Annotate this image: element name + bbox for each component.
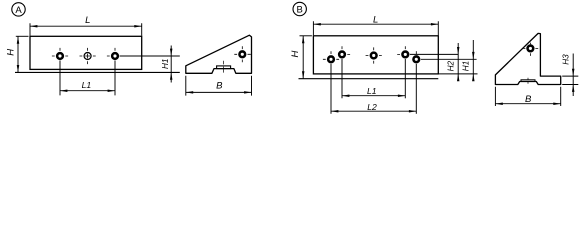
hole B2 inner left [339, 52, 345, 58]
hole B1 outer left [328, 56, 334, 62]
hole A2 centerline ticks [80, 48, 96, 64]
hole B4 extension line down to L1 [404, 59, 406, 98]
dimension H3 (B) line [572, 54, 574, 97]
hole A3 extension line down to L1 [114, 61, 116, 96]
dimension L2 (B) arrowheads [331, 110, 416, 113]
dimension H2 (B) arrowheads [457, 47, 460, 81]
dimension H1 (B) line [472, 40, 474, 80]
hole A1 counterbored [57, 53, 63, 59]
dimension B (B) extension lines [495, 87, 560, 106]
dimension L (B) extension lines [313, 21, 438, 35]
svg-text:H2: H2 [446, 61, 455, 72]
dimension B (A) line [186, 91, 252, 93]
dimension L1 (B) arrowheads [342, 94, 405, 97]
dimension H2 (B) line [457, 43, 459, 80]
dimension H (A) extension line top [16, 35, 29, 37]
side view B hole centerline ticks [523, 43, 539, 56]
dimension L1 (B) line [342, 95, 405, 97]
dimension L (B) line [313, 23, 438, 25]
plate front view A outline [30, 36, 142, 69]
svg-text:H: H [5, 49, 16, 56]
side view A hole centerline ticks [234, 46, 251, 62]
dimension L1 (A) arrowheads [60, 89, 115, 92]
hole B5 centerline ticks [415, 51, 417, 54]
plate front view B outline [313, 36, 438, 74]
side view B groove lip [521, 80, 535, 82]
dimension H (A) arrowheads [17, 36, 20, 72]
svg-text:A: A [15, 5, 22, 16]
svg-text:H3: H3 [561, 54, 570, 65]
dimension H1 (B) arrowheads [472, 52, 475, 81]
hole B2 centerline ticks [342, 46, 350, 54]
hole B4 centerline ticks [397, 46, 405, 54]
dimension H (A) line [17, 36, 19, 72]
dimension L (A) arrowheads [30, 25, 142, 28]
dimension L (B) arrowheads [313, 23, 438, 26]
dimension B (A) arrowheads [186, 91, 252, 94]
plate B bottom edge extension right [438, 73, 477, 75]
dimension H (B) extension line top [300, 35, 312, 37]
plate A lower bottom line [15, 71, 180, 73]
dimension B (B) arrowheads [495, 102, 560, 105]
dimension L (A) extension lines [30, 23, 142, 36]
side view A wedge outline with bottom groove [186, 35, 252, 73]
hole B5 outer right [413, 56, 419, 62]
variant label B circle [293, 2, 306, 15]
side view A groove lip [217, 66, 231, 69]
hole A1 extension line down to L1 [59, 61, 61, 96]
hole B5 centerline extension right to H1 [421, 58, 477, 60]
dimension H3 (B) arrowheads [572, 69, 575, 92]
svg-text:H1: H1 [462, 61, 471, 71]
hole A1 centerline ticks [52, 48, 68, 56]
dimension H (B) arrowheads [302, 36, 305, 79]
hole B2 extension line down to L1 [341, 59, 343, 98]
hole B5 extension line down to L2 [415, 64, 417, 114]
svg-text:L: L [373, 15, 378, 26]
hole B4 centerline extension right to H2 [410, 53, 458, 55]
dimension H3 (B) extension line top [562, 75, 578, 77]
hole B1 centerline ticks [323, 51, 339, 59]
hole B3 center [371, 53, 377, 59]
dimension H (B) line [302, 36, 304, 79]
hole A3 centerline ticks [107, 48, 115, 56]
svg-text:B: B [216, 80, 223, 91]
svg-text:L: L [85, 15, 90, 26]
side view B groove centerline [527, 78, 529, 84]
svg-text:H: H [290, 50, 301, 57]
side view B hole [528, 46, 534, 52]
hole A3 centerline extension right to H1 [120, 55, 180, 57]
svg-text:H1: H1 [161, 59, 170, 69]
side view A hole [239, 51, 245, 57]
svg-text:B: B [297, 4, 303, 15]
dimension L1 (A) line [60, 90, 115, 92]
side view A groove centerline [223, 61, 225, 73]
dimension H3 (B) extension line bottom [562, 84, 578, 86]
dimension L1 (A) extension lines [60, 94, 115, 96]
dimension B (B) line [495, 103, 560, 105]
dimension H1 (A) line [170, 46, 172, 83]
svg-text:L1: L1 [82, 80, 92, 90]
side view B wedge outline with bottom groove and right shelf [495, 33, 560, 84]
hole A2 threaded center [84, 53, 91, 60]
svg-text:L1: L1 [367, 86, 377, 96]
hole A3 counterbored [112, 53, 118, 59]
dimension H1 (A) arrowheads [170, 49, 173, 80]
dimension L (A) line [30, 25, 142, 27]
plate B lower bottom line [299, 78, 439, 80]
variant label A circle [12, 3, 25, 16]
hole B3 centerline ticks [366, 47, 382, 63]
svg-text:L2: L2 [367, 102, 377, 112]
hole B1 extension line down to L2 [330, 64, 332, 114]
hole B4 inner right [402, 52, 408, 58]
dimension B (A) extension lines [186, 76, 252, 96]
dimension L2 (B) line [331, 110, 416, 112]
svg-text:B: B [525, 94, 532, 105]
